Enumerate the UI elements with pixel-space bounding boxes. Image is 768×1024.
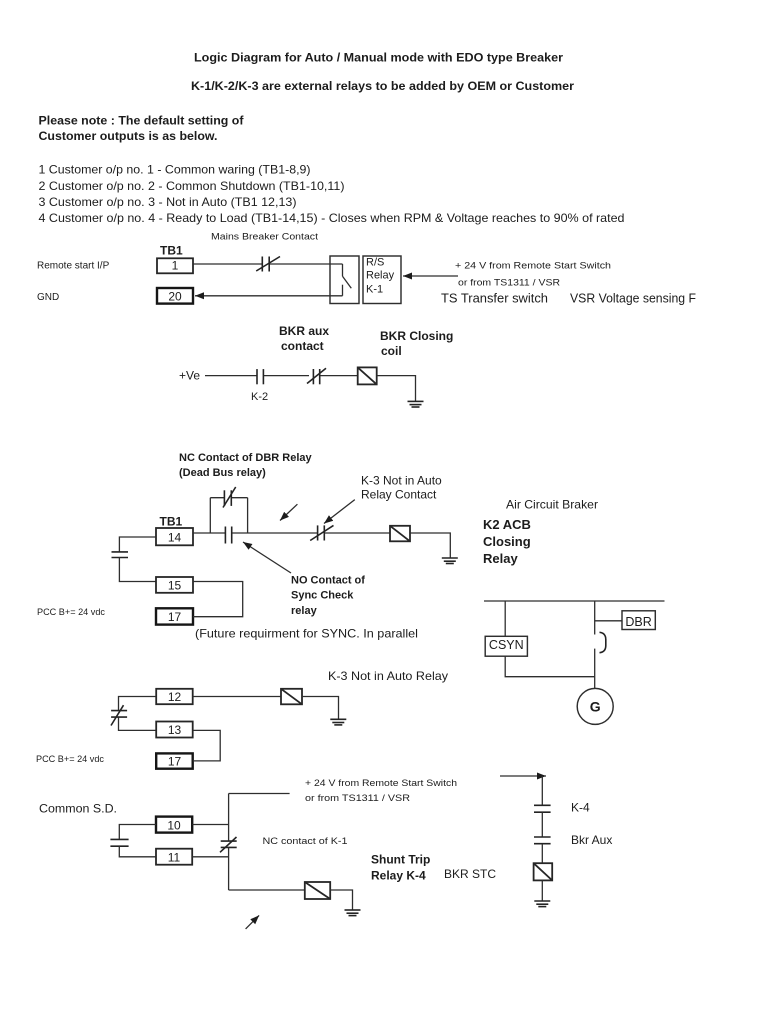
ground (K2 coil) [442, 558, 458, 564]
wire TB1-12 left branch [119, 697, 157, 711]
terminal box TB1-12 [156, 689, 193, 704]
svg-text:Logic Diagram for Auto / Manua: Logic Diagram for Auto / Manual mode wit… [194, 50, 563, 64]
wire +Ve to K-2 contact [205, 375, 257, 377]
svg-text:GND: GND [37, 292, 59, 303]
wire TB1-12 to K-3 coil [193, 696, 281, 698]
terminal box TB1-13 [156, 722, 193, 738]
arrow feed to K-4 branch [500, 775, 546, 777]
ground (shunt coil) [345, 910, 361, 916]
wire riser to shunt coil [229, 889, 305, 891]
wire relay contact to TB1-20 with arrow [195, 295, 343, 297]
wire contact to TB1-13 [119, 717, 157, 730]
svg-text:K-3 Not in Auto: K-3 Not in Auto [361, 474, 442, 488]
NC contact of K-1 (bars and slash) [220, 837, 237, 852]
svg-text:12: 12 [168, 690, 182, 704]
relay contact box K-1 [330, 256, 359, 304]
svg-text:DBR: DBR [625, 615, 651, 629]
svg-text:or from TS1311 / VSR: or from TS1311 / VSR [305, 793, 411, 803]
svg-text:+ 24 V from Remote Start Switc: + 24 V from Remote Start Switch [305, 778, 457, 788]
svg-text:11: 11 [168, 850, 181, 864]
small arrow pointer [280, 504, 297, 520]
vertical riser bottom [228, 848, 230, 890]
terminal box TB1-10 [156, 817, 192, 833]
svg-text:2 Customer o/p no. 2 - Common: 2 Customer o/p no. 2 - Common Shutdown (… [39, 179, 345, 193]
svg-text:TS Transfer switch: TS Transfer switch [441, 290, 548, 305]
svg-text:PCC B+= 24 vdc: PCC B+= 24 vdc [37, 607, 105, 617]
contact K-2 (NO) [257, 369, 263, 384]
svg-text:TB1: TB1 [160, 244, 183, 258]
wire BKR aux contact to coil [320, 375, 358, 377]
svg-text:1: 1 [172, 258, 179, 272]
parallel branch right vertical [247, 498, 249, 533]
wire coil to ground [377, 376, 416, 402]
ground (BKR closing) [408, 401, 424, 407]
svg-text:R/S: R/S [366, 257, 384, 269]
svg-text:K2 ACB: K2 ACB [483, 517, 531, 532]
wire CSYN to bottom rail [505, 656, 595, 677]
K-3 relay coil box [281, 689, 302, 705]
arrow from NO contact label [243, 542, 291, 573]
svg-text:TB1: TB1 [160, 514, 183, 528]
terminal box TB1-17b [156, 753, 193, 768]
wire coil to ground [410, 533, 450, 558]
svg-text:14: 14 [168, 530, 182, 544]
svg-text:VSR Voltage sensing F: VSR Voltage sensing F [570, 290, 696, 305]
ground (K-3 coil) [330, 719, 346, 725]
capacitor-style link (bottom) [110, 839, 128, 846]
svg-text:Please note : The default sett: Please note : The default setting of [39, 114, 245, 128]
arrow from K-3 label to contact [324, 500, 355, 524]
svg-text:K-3 Not in Auto Relay: K-3 Not in Auto Relay [328, 669, 448, 683]
wire link to TB1-15 [119, 558, 156, 582]
svg-text:17: 17 [168, 610, 182, 624]
svg-text:K-1: K-1 [366, 284, 383, 296]
BKR closing coil box [358, 367, 377, 384]
capacitor-style link PCC B+ (row3) [112, 552, 129, 558]
wire riser to +24V label [229, 793, 290, 795]
wire TB1-14 to NO contact [193, 532, 225, 534]
svg-text:Remote start I/P: Remote start I/P [37, 261, 110, 272]
svg-text:K-1/K-2/K-3 are external relay: K-1/K-2/K-3 are external relays to be ad… [191, 79, 574, 93]
mains breaker contact (NC with slash) [256, 257, 280, 272]
svg-text:17: 17 [168, 755, 182, 769]
wire TB1-15 to TB1-17 [193, 582, 243, 617]
svg-text:(Dead Bus relay): (Dead Bus relay) [179, 467, 266, 479]
CSYN box [485, 636, 527, 656]
svg-text:NO Contact of: NO Contact of [291, 575, 365, 587]
svg-text:or from TS1311 / VSR: or from TS1311 / VSR [458, 278, 561, 288]
wire link to TB1-11 [119, 846, 156, 856]
NO contact of sync check relay (on main wire) [225, 527, 231, 544]
svg-text:1 Customer o/p no. 1 - Common: 1 Customer o/p no. 1 - Common waring (TB… [39, 162, 311, 176]
wire TB1-10 to vertical [192, 824, 228, 826]
wire mains contact to relay contact box [270, 263, 343, 265]
wire TB1-14 left branch [119, 537, 156, 552]
terminal box TB1-1 [157, 258, 193, 273]
svg-text:Customer outputs is as below.: Customer outputs is as below. [39, 129, 218, 143]
wire contact to generator [594, 649, 596, 689]
wire K-3 contact to K2 coil [325, 532, 390, 534]
svg-text:4 Customer o/p no. 4 - Ready t: 4 Customer o/p no. 4 - Ready to Load (TB… [39, 211, 625, 225]
svg-text:BKR STC: BKR STC [444, 867, 496, 881]
svg-text:Sync Check: Sync Check [291, 590, 354, 602]
BKR STC coil box [534, 863, 553, 880]
wire K-4 to Bkr Aux [541, 812, 543, 837]
svg-text:BKR aux: BKR aux [279, 324, 329, 338]
vertical riser top [228, 794, 230, 841]
svg-text:K-4: K-4 [571, 801, 590, 815]
svg-text:Relay K-4: Relay K-4 [371, 868, 426, 882]
terminal box TB1-20 [157, 288, 193, 304]
svg-text:Relay: Relay [366, 270, 395, 282]
wire Bkr Aux to BKR STC coil [541, 844, 543, 863]
svg-text:13: 13 [168, 723, 182, 737]
relay contact switch blade [343, 264, 352, 296]
generator G circle [577, 688, 613, 724]
svg-text:Relay Contact: Relay Contact [361, 488, 437, 502]
svg-text:20: 20 [168, 289, 182, 303]
ACB top rail [484, 600, 665, 602]
svg-text:G: G [590, 698, 601, 714]
DBR box [622, 611, 655, 630]
svg-text:Air Circuit Braker: Air Circuit Braker [506, 497, 598, 511]
wire arrow into R/S relay [403, 275, 458, 277]
svg-text:CSYN: CSYN [489, 638, 524, 652]
svg-text:coil: coil [381, 344, 402, 358]
svg-text:+Ve: +Ve [179, 369, 200, 383]
shunt trip coil box [305, 882, 330, 899]
wire coil to ground [302, 697, 339, 720]
arrow pointer (bottom) [246, 915, 260, 929]
wire rail to breaker contact [594, 601, 596, 635]
wire TB1-1 to mains contact [193, 263, 262, 265]
svg-text:3 Customer o/p no. 3 - Not in: 3 Customer o/p no. 3 - Not in Auto (TB1 … [39, 195, 297, 209]
svg-text:contact: contact [281, 339, 324, 353]
svg-text:BKR Closing: BKR Closing [380, 329, 453, 343]
wire arrow to K-4 contact [541, 776, 543, 805]
svg-text:NC Contact of DBR Relay: NC Contact of DBR Relay [179, 452, 313, 464]
wire TB1-10 left branch [119, 825, 156, 839]
svg-text:15: 15 [168, 578, 182, 592]
svg-text:+ 24 V from Remote Start Switc: + 24 V from Remote Start Switch [455, 260, 611, 270]
NC contact of DBR relay (on top rail) [223, 487, 236, 508]
wire rail to CSYN [504, 601, 506, 636]
BKR aux contact (NC with slash) [307, 368, 326, 384]
terminal box TB1-17 [156, 608, 193, 624]
svg-text:PCC B+= 24 vdc: PCC B+= 24 vdc [36, 754, 104, 764]
K-3 not in auto relay contact (NC with slash) [310, 525, 333, 540]
svg-text:Mains Breaker Contact: Mains Breaker Contact [211, 232, 319, 242]
contact Bkr Aux [534, 837, 551, 844]
ACB breaker contact arc [600, 632, 606, 652]
NC contact on left branch (bars and slash) [111, 705, 127, 725]
ground (BKR STC) [534, 901, 550, 907]
terminal box TB1-14 [156, 528, 193, 545]
wire tap to DBR [595, 620, 622, 622]
parallel branch left vertical [209, 498, 211, 533]
svg-text:Closing: Closing [483, 534, 531, 549]
contact K-4 [534, 805, 551, 812]
wire TB1-13 to TB1-17b [193, 730, 221, 761]
wire TB1-11 to vertical [192, 856, 228, 858]
svg-text:Common S.D.: Common S.D. [39, 802, 117, 816]
svg-text:relay: relay [291, 605, 318, 617]
svg-text:Relay: Relay [483, 551, 518, 566]
wire coil to ground [541, 880, 543, 901]
svg-text:(Future requirment for SYNC. I: (Future requirment for SYNC. In parallel [195, 626, 418, 640]
wire NO contact to K-3 contact [232, 532, 317, 534]
wire coil to ground [330, 890, 352, 910]
svg-text:10: 10 [167, 818, 181, 832]
terminal box TB1-15 [156, 577, 193, 593]
terminal box TB1-11 [156, 849, 192, 865]
svg-text:NC contact of K-1: NC contact of K-1 [263, 836, 348, 846]
svg-text:Bkr Aux: Bkr Aux [571, 833, 612, 847]
K2 ACB closing coil box [390, 526, 410, 542]
svg-text:K-2: K-2 [251, 391, 268, 403]
top rail of parallel branch [210, 497, 247, 499]
wire K-2 to BKR aux contact [264, 375, 309, 377]
relay box R/S Relay K-1 [363, 256, 401, 304]
svg-text:Shunt Trip: Shunt Trip [371, 852, 430, 866]
